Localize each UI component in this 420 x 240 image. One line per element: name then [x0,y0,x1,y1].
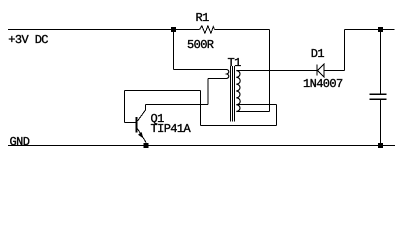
svg-text:+3V DC: +3V DC [8,33,48,47]
svg-text:GND: GND [10,135,30,149]
svg-text:TIP41A: TIP41A [151,122,192,136]
svg-text:R1: R1 [196,11,210,25]
svg-text:500R: 500R [187,38,214,52]
svg-text:T1: T1 [228,56,242,70]
svg-text:1N4007: 1N4007 [303,77,343,91]
svg-text:D1: D1 [311,47,325,61]
